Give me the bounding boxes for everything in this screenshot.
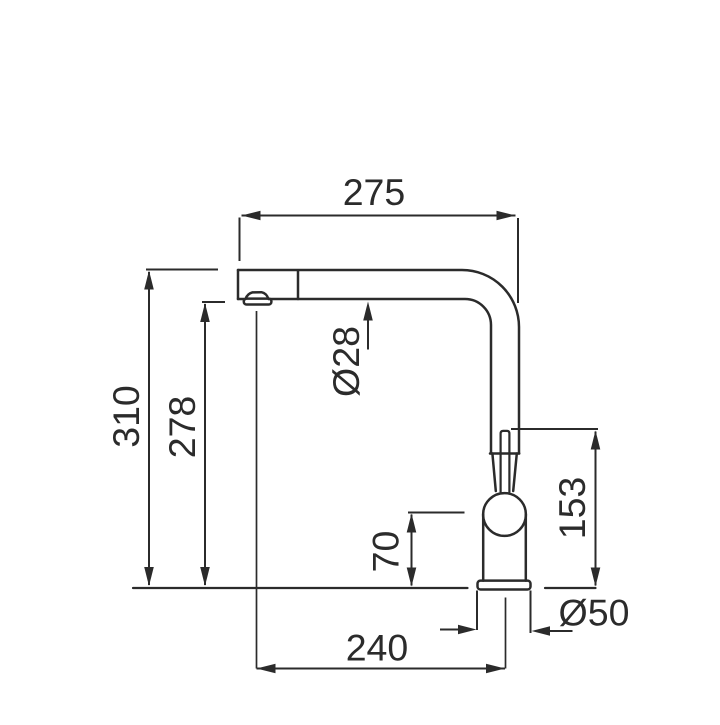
arrowhead o50 right-pointing [458, 625, 477, 635]
dim o28 arrow shaft [367, 319, 369, 350]
arrowhead 153 up [591, 431, 601, 450]
spout tip divider [297, 271, 300, 300]
arrowhead 240 right [486, 664, 505, 674]
dim 275 line [242, 215, 516, 217]
svg-text:275: 275 [343, 171, 406, 213]
svg-text:153: 153 [551, 477, 593, 540]
svg-text:240: 240 [346, 627, 409, 669]
dim 278 line [204, 304, 206, 585]
base flange [478, 581, 531, 590]
svg-text:Ø50: Ø50 [559, 592, 630, 634]
dim o50 extension left [476, 591, 478, 631]
dim 278 extension top [202, 301, 225, 303]
centerline spout outlet [256, 311, 258, 669]
dim 275 extension left [239, 218, 241, 262]
body right side [525, 515, 528, 581]
arrowhead 70 down [407, 568, 417, 587]
spout top edge and outer bend [238, 270, 519, 454]
lower tube taper left [492, 454, 495, 492]
arrowhead 310 down [144, 567, 154, 586]
dim 240 line [257, 668, 506, 670]
svg-text:310: 310 [105, 385, 147, 448]
dim o50 left arrow shaft [440, 629, 460, 631]
arrowhead 275 right [497, 211, 516, 221]
arrowhead 278 down [200, 567, 210, 586]
svg-text:278: 278 [161, 396, 203, 459]
tube joint line [490, 452, 519, 455]
dim 310 line [148, 272, 150, 585]
cartridge ball circle [483, 493, 526, 536]
svg-text:Ø28: Ø28 [325, 326, 367, 397]
arrowhead 310 up [144, 271, 154, 290]
aerator dome [246, 292, 269, 299]
counter line left segment [133, 587, 468, 589]
dim 153 line [595, 432, 597, 586]
lower tube taper right [513, 454, 517, 492]
arrowhead o28 up [363, 302, 373, 321]
arrowhead 278 up [200, 303, 210, 322]
spout tip left edge [237, 270, 240, 299]
spout bottom edge and inner bend [238, 299, 491, 454]
arrowhead 275 left [242, 211, 261, 221]
dim 275 extension right [517, 218, 519, 303]
body left side [482, 515, 485, 581]
dim o50 right arrow shaft [549, 630, 573, 632]
dim 70 line [411, 515, 413, 586]
arrowhead 240 left [257, 664, 276, 674]
dim 70 extension top [408, 512, 465, 514]
aerator collar [244, 299, 272, 305]
arrowhead o50 left-pointing [532, 626, 551, 636]
dim 153 extension top [511, 428, 598, 430]
centerline faucet axis [505, 598, 507, 669]
svg-text:70: 70 [365, 531, 407, 573]
counter line right segment [545, 587, 596, 589]
arrowhead 70 up [407, 514, 417, 533]
dim o50 extension right [530, 591, 532, 634]
dim 310 extension top [146, 269, 218, 271]
handle lever rod [501, 431, 510, 492]
arrowhead 153 down [591, 568, 601, 587]
